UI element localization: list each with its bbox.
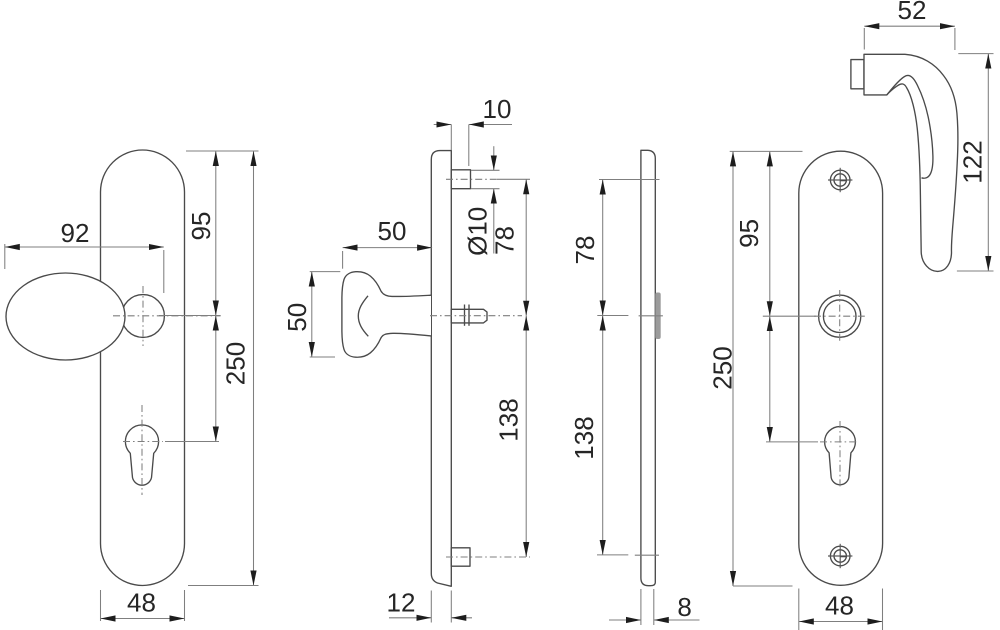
svg-text:92: 92 — [61, 218, 90, 248]
svg-text:138: 138 — [569, 416, 599, 459]
dimension 78 (view 3) — [570, 180, 603, 316]
bottom screw — [828, 544, 852, 568]
dimension 92 — [5, 218, 164, 293]
svg-text:78: 78 — [570, 236, 600, 265]
knob side profile — [342, 272, 431, 358]
knob centerline horizontal — [113, 315, 221, 317]
dimension 95 (chain, view 4) — [734, 151, 770, 442]
top fixing stem (view 2) — [451, 170, 470, 189]
dimension 48 (view 4) — [799, 589, 883, 630]
svg-text:138: 138 — [494, 398, 524, 441]
dimension 250 (view 4) — [707, 151, 737, 586]
dimension 48 (view 1) — [101, 588, 185, 622]
extension lines (view 3) — [597, 180, 663, 556]
plate profile (12mm) — [431, 151, 451, 587]
svg-text:250: 250 — [221, 342, 251, 385]
dimension 50 vertical (view 2) — [282, 272, 340, 357]
svg-text:95: 95 — [186, 212, 216, 241]
svg-text:Ø10: Ø10 — [463, 207, 493, 256]
dimension 122 (lever) — [957, 54, 994, 271]
spindle boss (view 3) — [655, 293, 660, 340]
knob inner contour — [358, 296, 368, 337]
knob centerline vertical — [142, 286, 144, 346]
plate profile (8mm) — [641, 150, 655, 585]
svg-text:250: 250 — [707, 346, 737, 389]
svg-text:50: 50 — [282, 303, 312, 332]
dimension Ø10 (view 2) — [463, 146, 500, 256]
bottom fixing stem (view 2) — [451, 548, 470, 566]
svg-text:48: 48 — [127, 588, 156, 618]
dimension 250 (view 1) — [221, 151, 254, 586]
cylinder centerlines (view 4) — [820, 421, 857, 488]
stem centerlines (view 2) — [430, 179, 530, 557]
dimension 10 (view 2 top) — [434, 94, 512, 166]
dimension 12 (view 2 bottom) — [387, 588, 472, 623]
svg-text:78: 78 — [490, 226, 520, 255]
svg-text:12: 12 — [387, 588, 416, 618]
dimension 8 (view 3 bottom) — [609, 589, 700, 625]
spindle stem (view 2) — [451, 305, 487, 326]
svg-text:50: 50 — [378, 216, 407, 246]
dimension 138 (view 3) — [569, 316, 603, 555]
svg-text:48: 48 — [825, 591, 854, 621]
euro profile cylinder (view 4) — [825, 427, 856, 485]
plate (front, lever side) — [799, 151, 883, 585]
svg-text:10: 10 — [483, 94, 512, 124]
dimension 138 (view 2) — [494, 316, 527, 557]
knob neck circle — [122, 295, 165, 338]
svg-text:8: 8 — [677, 592, 691, 622]
cylinder centerline vertical (view 1) — [141, 405, 143, 495]
lever handle outline — [864, 54, 958, 271]
svg-text:122: 122 — [957, 140, 987, 183]
cylinder centerline horizontal (view 1) — [123, 441, 219, 443]
euro profile cylinder (view 1) — [125, 425, 158, 485]
svg-text:52: 52 — [898, 0, 927, 25]
dimension 50 horizontal (view 2) — [343, 216, 433, 269]
svg-text:95: 95 — [734, 219, 764, 248]
lever inner contour — [887, 75, 933, 178]
top screw — [828, 168, 852, 192]
dimension 52 (lever) — [864, 0, 955, 50]
dimension 78 (view 2) — [490, 179, 531, 315]
plate (front, knob side) — [101, 150, 185, 586]
extension lines (view 4) — [730, 151, 868, 586]
dimension 95 (chain, view 1) — [186, 151, 216, 442]
lever hub — [819, 290, 861, 343]
oval knob — [6, 273, 125, 360]
lever handle square end cap — [851, 60, 864, 89]
extension lines (view 1) — [159, 151, 259, 586]
